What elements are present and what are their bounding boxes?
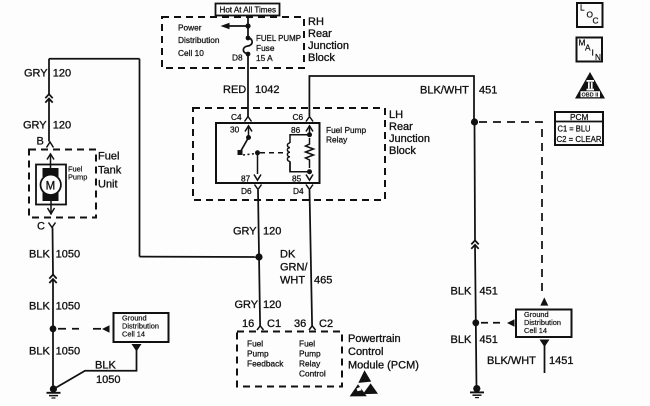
- svg-text:L: L: [580, 3, 585, 13]
- svg-text:85: 85: [292, 174, 302, 184]
- svg-text:451: 451: [480, 334, 498, 346]
- svg-text:Fuel: Fuel: [247, 339, 263, 349]
- arrowhead pointing up (right ground ref top): [540, 297, 548, 305]
- svg-text:Feedback: Feedback: [247, 359, 284, 369]
- svg-text:Cell 14: Cell 14: [524, 326, 547, 335]
- svg-text:Power: Power: [178, 23, 202, 33]
- wire from hot feed down: [247, 16, 249, 39]
- wire DK GRN/WHT 465 from D4 to PCM 36: [310, 190, 313, 326]
- label DK GRN/WHT 465: [280, 249, 332, 287]
- svg-text:RED: RED: [223, 84, 246, 96]
- relay coil L1: [287, 135, 309, 172]
- wire from left ground box to ground point: [55, 349, 137, 389]
- label BLK/WHT 451: [420, 85, 497, 97]
- svg-text:C1: C1: [267, 318, 281, 330]
- svg-text:LH: LH: [389, 109, 403, 121]
- svg-text:1050: 1050: [56, 301, 80, 313]
- ground symbol G1 (left): [47, 385, 61, 398]
- svg-text:Fuel: Fuel: [98, 151, 119, 163]
- svg-text:120: 120: [263, 226, 281, 238]
- svg-text:C1 = BLU: C1 = BLU: [558, 124, 591, 134]
- label BLK 451 (lower): [451, 334, 498, 346]
- svg-text:Pump: Pump: [299, 349, 321, 359]
- svg-text:Module (PCM): Module (PCM): [348, 359, 419, 371]
- wire RED 1042 fuse to relay C4: [247, 54, 249, 117]
- coil bottom node: [307, 169, 312, 174]
- svg-text:N: N: [595, 52, 601, 62]
- svg-text:Powertrain: Powertrain: [348, 333, 401, 345]
- label Fuel Pump Feedback: [247, 339, 284, 369]
- svg-text:BLK: BLK: [29, 249, 50, 261]
- label BLK 1050 (second): [29, 301, 80, 313]
- svg-text:16: 16: [242, 318, 254, 330]
- fuel tank unit dashed box: [29, 150, 96, 218]
- svg-text:120: 120: [53, 68, 71, 80]
- svg-text:36: 36: [294, 318, 306, 330]
- svg-text:Control: Control: [348, 346, 383, 358]
- svg-text:WHT: WHT: [280, 275, 305, 287]
- svg-text:Block: Block: [389, 145, 416, 157]
- fuse F1 FUEL PUMP 15A: [243, 36, 252, 57]
- svg-text:1050: 1050: [96, 374, 120, 386]
- svg-text:C2 = CLEAR: C2 = CLEAR: [557, 134, 602, 144]
- label Powertrain Control Module (PCM): [348, 333, 419, 371]
- svg-text:Block: Block: [308, 52, 335, 64]
- wire horizontal into GRY node: [140, 256, 260, 258]
- dashed link to coil: [260, 152, 287, 154]
- svg-text:M: M: [46, 180, 56, 192]
- svg-text:Junction: Junction: [389, 133, 430, 145]
- label GRY 120 (upper, D6 wire): [233, 226, 281, 238]
- label BLK 1050 (diagonal wire): [95, 360, 120, 387]
- label Fuel Tank Unit: [98, 151, 122, 191]
- wire top horizontal run: [49, 58, 140, 60]
- svg-text:BLK/WHT: BLK/WHT: [420, 85, 469, 97]
- dashed reference wire to ground distribution cell 14 (left): [58, 328, 101, 330]
- inline connector break on BLK wire: [49, 275, 56, 283]
- svg-text:FUEL PUMP: FUEL PUMP: [256, 33, 301, 43]
- label Fuel Pump (small): [68, 165, 87, 182]
- label Power Distribution Cell 10: [178, 23, 220, 59]
- legend LOC box: [577, 3, 603, 27]
- label GRY 120 (lower): [23, 120, 71, 132]
- svg-text:A: A: [585, 43, 591, 53]
- ground distribution cell 14 box (left): [114, 313, 169, 342]
- label RED 1042: [223, 84, 279, 96]
- wire GRY 120 from D6 to PCM 16: [258, 190, 260, 326]
- svg-text:BLK: BLK: [95, 360, 116, 372]
- svg-text:DK: DK: [280, 249, 296, 261]
- fuse value label: [256, 33, 301, 63]
- label LH Rear Junction Block: [389, 109, 430, 157]
- wire GRY from fuel pump B terminal up: [48, 59, 50, 142]
- svg-text:Rear: Rear: [389, 121, 413, 133]
- arrowhead below right ground box pointing down: [540, 340, 550, 348]
- junction to ground distribution (left): [50, 325, 57, 332]
- svg-text:C4: C4: [231, 112, 242, 122]
- svg-text:GRY: GRY: [23, 120, 47, 132]
- svg-text:RH: RH: [308, 16, 324, 28]
- svg-text:C: C: [593, 16, 599, 26]
- wire BLK from C down: [52, 228, 55, 390]
- relay internal resistor: [306, 138, 314, 168]
- svg-text:Relay: Relay: [326, 135, 348, 145]
- svg-text:Tank: Tank: [98, 165, 122, 177]
- svg-text:120: 120: [263, 299, 281, 311]
- fuel pump relay K1 box: [216, 123, 320, 183]
- inline connector break on BLK 451 wire: [471, 240, 478, 248]
- svg-text:Fuel Pump: Fuel Pump: [326, 125, 367, 135]
- relay switch arm: [246, 135, 251, 140]
- dashed reference wire to ground cell (right): [481, 322, 503, 324]
- ground distribution cell 14 box (right): [516, 310, 572, 338]
- fuel pump motor body: [41, 168, 61, 201]
- svg-text:Relay: Relay: [299, 359, 321, 369]
- svg-text:Unit: Unit: [98, 179, 118, 191]
- arrowhead pointing left (right ground ref): [507, 319, 515, 327]
- svg-text:465: 465: [314, 275, 332, 287]
- wire pump to B (arrow up inside tank box): [47, 154, 54, 169]
- svg-text:BLK: BLK: [451, 334, 472, 346]
- svg-text:BLK: BLK: [451, 286, 472, 298]
- ground symbol G2 (right): [470, 385, 484, 398]
- svg-text:I: I: [592, 48, 594, 58]
- svg-text:C6: C6: [293, 112, 304, 122]
- svg-text:120: 120: [53, 120, 71, 132]
- svg-text:GRY: GRY: [24, 68, 48, 80]
- svg-text:Junction: Junction: [308, 40, 349, 52]
- power distribution cell 10 dashed box: [162, 17, 304, 68]
- svg-text:Hot At All Times: Hot At All Times: [220, 5, 277, 15]
- svg-text:PCM: PCM: [570, 112, 589, 122]
- label BLK 1050 (third): [29, 346, 80, 358]
- svg-text:1050: 1050: [56, 249, 80, 261]
- label Fuel Pump Relay: [326, 125, 367, 145]
- svg-text:Rear: Rear: [308, 28, 332, 40]
- connector pin B chevron: [47, 142, 54, 148]
- wire BLK/WHT 1451 stub: [544, 345, 546, 373]
- junction node BLK/WHT: [471, 118, 478, 125]
- wire right vertical drop to junction: [139, 59, 141, 257]
- label GRY 120 (upper): [24, 68, 71, 80]
- svg-text:Fuel: Fuel: [299, 339, 315, 349]
- svg-text:1042: 1042: [255, 84, 279, 96]
- svg-text:BLK: BLK: [29, 346, 50, 358]
- label BLK 1050 (first): [29, 249, 80, 261]
- svg-text:BLK/WHT: BLK/WHT: [487, 355, 536, 367]
- svg-text:Control: Control: [299, 369, 326, 379]
- legend MAIN box: [577, 38, 603, 62]
- svg-text:GRY: GRY: [235, 299, 259, 311]
- svg-text:OBD II: OBD II: [582, 92, 599, 98]
- svg-text:1451: 1451: [549, 355, 573, 367]
- svg-text:Cell 10: Cell 10: [178, 48, 204, 58]
- junction to ground distribution (right): [472, 319, 479, 326]
- svg-text:Distribution: Distribution: [178, 35, 220, 45]
- junction node GRY: [255, 253, 262, 260]
- wire BLK 451 down right side: [475, 122, 477, 389]
- arrowhead pointing left (left ground ref): [102, 325, 110, 332]
- fuel pump motor M1 outer box: [36, 165, 66, 205]
- LH rear junction block dashed box: [193, 108, 385, 200]
- svg-text:C: C: [37, 221, 45, 233]
- junction dot feed: [245, 23, 250, 28]
- svg-text:1050: 1050: [56, 346, 80, 358]
- wire pump to C (arrow down inside tank box): [48, 201, 55, 215]
- connector pin C chevron: [49, 223, 56, 228]
- coil top node: [307, 132, 312, 137]
- arrow to power distribution cell 10: [229, 25, 248, 27]
- svg-text:D8: D8: [232, 53, 243, 63]
- svg-text:15 A: 15 A: [256, 53, 273, 63]
- PCM dashed box: [237, 332, 342, 387]
- svg-text:30: 30: [230, 125, 240, 135]
- legend OBD II triangle: [575, 72, 605, 99]
- svg-text:B: B: [37, 136, 44, 148]
- svg-text:Cell 14: Cell 14: [122, 330, 145, 339]
- Hot At All Times box: [216, 4, 280, 16]
- svg-text:451: 451: [480, 286, 498, 298]
- svg-text:87: 87: [241, 174, 251, 184]
- legend PCM connector box: [555, 112, 603, 145]
- inline connector break on GRY wire: [45, 94, 52, 102]
- svg-text:C2: C2: [319, 318, 333, 330]
- svg-text:Fuse: Fuse: [256, 43, 275, 53]
- svg-text:86: 86: [291, 125, 301, 135]
- wire BLK/WHT 451 from relay C6 up and right: [309, 76, 474, 122]
- label BLK/WHT 1451: [487, 355, 573, 367]
- label BLK 451 (upper): [451, 286, 498, 298]
- label RH Rear Junction Block: [308, 16, 349, 64]
- switch actuation dotted link: [243, 154, 256, 156]
- svg-text:GRY: GRY: [233, 226, 257, 238]
- svg-text:Pump: Pump: [68, 173, 87, 182]
- svg-text:D6: D6: [241, 186, 252, 196]
- svg-text:451: 451: [479, 85, 497, 97]
- dashed reference wire to ground distribution (right top): [479, 122, 542, 296]
- label GRY 120 (lower, D6 wire): [235, 299, 282, 311]
- svg-text:D4: D4: [293, 186, 304, 196]
- arrowhead below left ground box pointing down: [132, 344, 142, 352]
- svg-text:GRN/: GRN/: [280, 262, 308, 274]
- ESD sensitive icon: [350, 370, 378, 396]
- svg-text:BLK: BLK: [29, 301, 50, 313]
- label Fuel Pump Relay Control: [299, 339, 326, 379]
- svg-text:Pump: Pump: [247, 349, 269, 359]
